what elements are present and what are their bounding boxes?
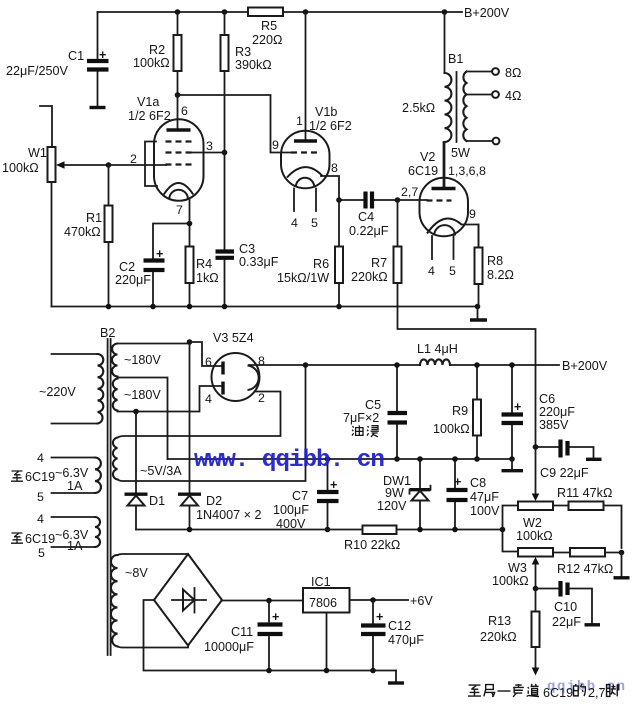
capacitor C11 <box>204 601 283 671</box>
svg-text:22μF/250V: 22μF/250V <box>6 64 68 78</box>
svg-text:10000μF: 10000μF <box>204 640 254 654</box>
svg-text:B+200V: B+200V <box>464 6 510 20</box>
svg-text:C7: C7 <box>292 489 308 503</box>
svg-text:0.22μF: 0.22μF <box>349 224 389 238</box>
svg-text:1kΩ: 1kΩ <box>196 271 219 285</box>
svg-text:4: 4 <box>37 451 44 465</box>
node: R11/R12 right junction <box>619 550 625 556</box>
node: IC1 ground pin <box>324 668 330 674</box>
svg-text:~5V/3A: ~5V/3A <box>140 464 182 478</box>
svg-text:5W: 5W <box>451 146 470 160</box>
svg-text:2,7: 2,7 <box>588 686 606 700</box>
capacitor C12 <box>361 600 424 671</box>
wire: +6V output <box>350 594 434 608</box>
resistor R12 <box>553 548 622 576</box>
core: B2 <box>108 339 111 655</box>
winding: B2 secondary ~8V <box>111 554 188 648</box>
node: C7 top <box>325 456 331 462</box>
resistor R5 <box>248 8 283 48</box>
resistor R8 <box>475 225 514 307</box>
node: C12 bottom <box>370 668 376 674</box>
node: C11 top <box>266 598 272 604</box>
svg-text:R10 22kΩ: R10 22kΩ <box>344 538 400 552</box>
svg-text:220μF: 220μF <box>115 273 151 287</box>
resistor R6 <box>277 200 343 307</box>
node: V1a anode / R2 <box>175 92 181 98</box>
potentiometer W3 <box>492 548 553 589</box>
svg-text:7μF×2: 7μF×2 <box>343 411 379 425</box>
svg-text:1,3,6,8: 1,3,6,8 <box>448 164 486 178</box>
svg-text:R8: R8 <box>487 254 503 268</box>
ground: R11/R12 ground symbol <box>614 553 630 578</box>
svg-text:470μF: 470μF <box>388 633 424 647</box>
svg-text:C8: C8 <box>470 476 486 490</box>
ground: 6V rail ground symbol <box>388 671 404 684</box>
svg-text:V2: V2 <box>420 150 435 164</box>
svg-text:1/2 6F2: 1/2 6F2 <box>309 119 352 133</box>
svg-text:W2: W2 <box>523 516 542 530</box>
node: 180V upper end / V3 plate / D2 <box>187 339 193 345</box>
svg-text:220μF: 220μF <box>539 405 575 419</box>
svg-text:7: 7 <box>176 203 183 217</box>
winding: B2 secondary ~180V lower <box>113 379 222 412</box>
svg-text:~180V: ~180V <box>124 388 161 402</box>
node: V1a screen / R3 / C3 <box>222 150 228 156</box>
node: rail junction B1 / B+200V <box>442 9 448 15</box>
svg-text:+: + <box>376 610 383 624</box>
capacitor C9 <box>536 440 602 481</box>
svg-text:C3: C3 <box>239 242 255 256</box>
svg-text:V3 5Z4: V3 5Z4 <box>213 331 254 345</box>
svg-text:R6: R6 <box>313 257 329 271</box>
terminal: common tap <box>467 138 500 145</box>
svg-text:100kΩ: 100kΩ <box>433 422 470 436</box>
node: rail junction R2 <box>175 9 181 15</box>
svg-text:~8V: ~8V <box>125 566 148 580</box>
terminal: 4 ohm tap <box>467 89 522 103</box>
potentiometer W2 <box>503 447 554 552</box>
svg-text:R5: R5 <box>261 19 277 33</box>
capacitor C10 <box>536 581 601 629</box>
node: C8 top <box>452 456 458 462</box>
node: R9 top <box>474 362 480 368</box>
tube V2 (6C19) <box>401 142 486 278</box>
wire: B+ filter rail <box>306 364 560 366</box>
svg-text:L1 4μH: L1 4μH <box>417 342 458 356</box>
svg-text:100kΩ: 100kΩ <box>492 574 529 588</box>
capacitor C1 <box>6 12 109 108</box>
svg-text:220kΩ: 220kΩ <box>351 270 388 284</box>
svg-text:R3: R3 <box>235 45 251 59</box>
svg-text:6C19: 6C19 <box>25 532 55 546</box>
svg-text:R12 47kΩ: R12 47kΩ <box>557 562 613 576</box>
terminal: 8 ohm tap <box>467 66 522 80</box>
svg-text:8Ω: 8Ω <box>505 66 521 80</box>
bridge rectifier <box>154 554 222 646</box>
wire: ground rail of amplifier section <box>52 306 478 308</box>
svg-text:1: 1 <box>296 114 303 128</box>
svg-text:5: 5 <box>311 216 318 230</box>
svg-text:+6V: +6V <box>410 594 433 608</box>
node: C12 top <box>370 597 376 603</box>
resistor R9 <box>433 365 481 459</box>
svg-text:R4: R4 <box>196 257 212 271</box>
wire: V3 plate 6 feed <box>190 342 223 366</box>
svg-text:C5: C5 <box>365 398 381 412</box>
resistor R1 <box>64 165 113 307</box>
svg-text:5: 5 <box>38 546 45 560</box>
resistor R2 <box>133 12 182 95</box>
core: B1 <box>456 72 458 142</box>
svg-text:3: 3 <box>206 139 213 153</box>
tube V1b (1/2 6F2 triode) <box>272 12 352 230</box>
node: rail dots <box>106 304 481 310</box>
node: C6 top <box>509 362 515 368</box>
winding: B1 primary <box>445 12 452 188</box>
svg-text:5: 5 <box>37 490 44 504</box>
tube V3 (5Z4 rectifier) <box>205 331 265 406</box>
svg-text:V1a: V1a <box>137 95 159 109</box>
svg-text:9: 9 <box>469 207 476 221</box>
svg-text:4: 4 <box>428 264 435 278</box>
svg-text:C9 22μF: C9 22μF <box>540 466 589 480</box>
resistor R11 <box>553 486 622 548</box>
svg-text:C4: C4 <box>358 210 374 224</box>
winding: B2 secondary ~6.3V lower <box>37 512 100 560</box>
inductor L1 <box>417 342 458 365</box>
ground: psu rail ground symbol <box>502 459 524 471</box>
node: C6 bottom / ground <box>509 456 515 462</box>
wire: V3 cathode pin 8 to B+ <box>249 364 306 366</box>
svg-text:2,7: 2,7 <box>401 185 418 199</box>
wire: negative bias rail <box>136 529 503 531</box>
winding: B2 primary ~220V <box>39 354 103 424</box>
wire: psu ground rail <box>168 458 513 460</box>
node: DW1 top <box>417 456 423 462</box>
regulator IC1 7806 <box>303 575 350 671</box>
wire: HV centre tap <box>118 378 168 460</box>
svg-text:9: 9 <box>272 138 279 152</box>
capacitor C3 <box>216 153 279 307</box>
wire: grid feed V1a <box>109 164 167 166</box>
svg-text:R1: R1 <box>86 211 102 225</box>
label: to 6C19 heaters (upper) <box>11 470 55 484</box>
svg-text:C1: C1 <box>68 49 84 63</box>
svg-text:D2: D2 <box>206 494 222 508</box>
label: to 6C19 heaters (lower) <box>11 532 55 546</box>
node: bias rail / W2 network <box>500 527 506 533</box>
capacitor C6 <box>502 365 576 459</box>
wire: bridge minus to ground rail <box>144 600 397 671</box>
svg-text:100kΩ: 100kΩ <box>516 529 553 543</box>
svg-text:1A: 1A <box>67 479 83 493</box>
wire: top supply rail <box>98 11 463 13</box>
svg-text:R2: R2 <box>149 43 165 57</box>
wire: V2 grid feed <box>398 199 428 201</box>
label: to other channel 6C19 pins 2,7 <box>468 684 619 700</box>
node: C11 bottom <box>266 668 272 674</box>
svg-text:220kΩ: 220kΩ <box>480 630 517 644</box>
svg-text:120V: 120V <box>377 499 407 513</box>
svg-text:390kΩ: 390kΩ <box>235 58 272 72</box>
svg-text:B2: B2 <box>100 326 115 340</box>
svg-text:C12: C12 <box>388 619 411 633</box>
svg-text:47μF: 47μF <box>470 490 499 504</box>
winding: B1 secondary <box>463 72 466 142</box>
svg-text:W1: W1 <box>28 146 47 160</box>
svg-text:100kΩ: 100kΩ <box>133 56 170 70</box>
svg-text:B+200V: B+200V <box>562 359 608 373</box>
svg-text:~220V: ~220V <box>39 385 76 399</box>
resistor R4 <box>186 224 219 307</box>
svg-text:6: 6 <box>181 104 188 118</box>
node: C4 / R7 / V2 grid <box>395 197 401 203</box>
capacitor C7 <box>273 459 339 531</box>
svg-text:+: + <box>514 400 521 414</box>
svg-text:470kΩ: 470kΩ <box>64 225 101 239</box>
capacitor C5 <box>343 365 407 459</box>
potentiometer W1 <box>2 106 109 307</box>
svg-text:100μF: 100μF <box>273 503 309 517</box>
svg-text:+: + <box>99 48 106 62</box>
svg-text:100V: 100V <box>470 504 500 518</box>
svg-text:W3: W3 <box>508 561 527 575</box>
svg-text:~180V: ~180V <box>124 353 161 367</box>
node: W1 wiper / R1 / grid junction <box>106 162 112 168</box>
svg-text:~6.3V: ~6.3V <box>55 466 89 480</box>
node: V1a cathode junction <box>187 221 193 227</box>
svg-text:IC1: IC1 <box>311 575 331 589</box>
node: rail junction V1b anode <box>303 9 309 15</box>
svg-text:6C19: 6C19 <box>543 686 573 700</box>
zener DW1 <box>377 459 431 530</box>
svg-text:2: 2 <box>130 152 137 166</box>
node: 180V lower end / D1 <box>133 409 139 415</box>
svg-text:15kΩ/1W: 15kΩ/1W <box>277 271 329 285</box>
svg-text:2.5kΩ: 2.5kΩ <box>402 101 435 115</box>
node: D2 anode <box>187 527 193 533</box>
svg-text:1N4007 × 2: 1N4007 × 2 <box>196 508 261 522</box>
node: C9 / W2 wiper line <box>533 444 539 450</box>
capacitor C4 <box>339 192 398 239</box>
svg-text:+: + <box>330 478 337 492</box>
resistor R10 <box>344 526 400 553</box>
svg-text:C10: C10 <box>554 600 577 614</box>
svg-text:8.2Ω: 8.2Ω <box>487 268 514 282</box>
transformer B1 output <box>402 52 470 160</box>
svg-text:R7: R7 <box>371 256 387 270</box>
diode D1 <box>125 412 166 530</box>
node: V1b cathode / C4 <box>336 197 342 203</box>
wire: bridge plus output <box>222 600 303 602</box>
svg-text:6: 6 <box>205 355 212 369</box>
svg-text:4: 4 <box>205 392 212 406</box>
svg-text:R13: R13 <box>488 614 511 628</box>
node: R9 bottom <box>474 456 480 462</box>
svg-text:6C19: 6C19 <box>408 164 438 178</box>
resistor R3 <box>221 12 272 153</box>
label: oil-filled (C5) <box>352 425 379 437</box>
svg-text:220Ω: 220Ω <box>252 33 282 47</box>
node: B+ / filament return <box>303 362 309 368</box>
svg-text:4Ω: 4Ω <box>505 89 521 103</box>
diode D2 <box>178 342 261 530</box>
svg-text:385V: 385V <box>539 418 569 432</box>
svg-text:1A: 1A <box>67 539 83 553</box>
svg-text:+: + <box>454 475 461 489</box>
svg-text:R11 47kΩ: R11 47kΩ <box>557 486 612 500</box>
svg-text:9W: 9W <box>385 486 404 500</box>
node: rail junction R3 <box>222 9 228 15</box>
svg-text:V1b: V1b <box>315 105 337 119</box>
svg-text:R9: R9 <box>452 404 468 418</box>
svg-text:22μF: 22μF <box>552 615 581 629</box>
svg-text:+: + <box>272 610 279 624</box>
node: DW1 bottom <box>417 527 423 533</box>
svg-text:7806: 7806 <box>309 596 337 610</box>
svg-text:100kΩ: 100kΩ <box>2 161 39 175</box>
capacitor C8 <box>447 459 501 530</box>
svg-text:C11: C11 <box>231 625 253 639</box>
node: C8 bottom <box>452 527 458 533</box>
node: C7 bottom <box>325 527 331 533</box>
svg-text:www. qqibb. cn: www. qqibb. cn <box>194 447 385 474</box>
svg-text:6C19: 6C19 <box>25 470 55 484</box>
winding: B2 secondary ~6.3V upper <box>37 451 101 504</box>
svg-text:4: 4 <box>37 512 44 526</box>
ground: amplifier rail ground symbol <box>470 307 487 321</box>
svg-text:0.33μF: 0.33μF <box>239 255 279 269</box>
node: W3 wiper / C10 / R13 <box>533 586 539 592</box>
winding: B2 secondary ~180V upper <box>112 344 189 377</box>
svg-text:C2: C2 <box>119 260 135 274</box>
resistor R7 <box>351 200 536 447</box>
svg-text:2: 2 <box>258 391 265 405</box>
node: C5 top <box>394 362 400 368</box>
svg-text:1/2 6F2: 1/2 6F2 <box>128 109 171 123</box>
resistor R13 <box>480 589 540 676</box>
svg-text:8: 8 <box>331 161 338 175</box>
node: C5 bottom <box>394 456 400 462</box>
svg-text:+: + <box>156 247 163 261</box>
svg-text:B1: B1 <box>448 52 463 66</box>
wire: V1a anode to V1b grid <box>178 95 292 153</box>
svg-text:4: 4 <box>291 216 298 230</box>
svg-text:5: 5 <box>449 264 456 278</box>
svg-text:C6: C6 <box>539 392 555 406</box>
winding: B2 secondary ~5V/3A <box>113 365 306 481</box>
tube V1a (1/2 6F2 pentode) <box>128 95 225 224</box>
capacitor C2 <box>115 224 190 307</box>
svg-text:D1: D1 <box>149 494 165 508</box>
